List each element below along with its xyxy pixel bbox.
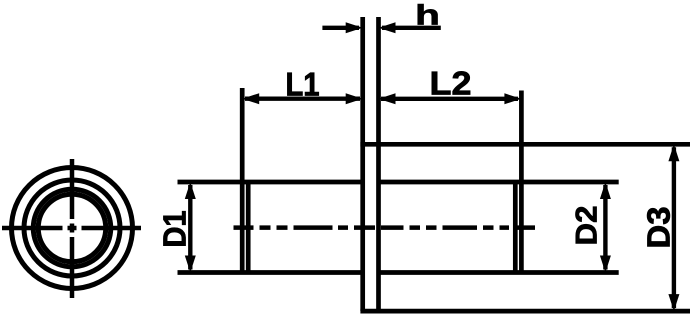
arrowhead D2 bottom bbox=[600, 256, 611, 273]
horizontal centerline (front view) bbox=[2, 226, 141, 231]
bore circle inner chamfer (front view) bbox=[38, 194, 106, 262]
dimension line D3 bbox=[672, 147, 676, 308]
outer circle D3 (front view) bbox=[12, 168, 133, 289]
arrowhead D3 bottom bbox=[668, 294, 679, 311]
arrowhead L2 left bbox=[379, 93, 396, 104]
side view centerline bbox=[234, 225, 536, 230]
arrowhead L1 left bbox=[242, 93, 259, 104]
arrowhead D3 top bbox=[668, 144, 679, 161]
left cylinder bottom line bbox=[178, 270, 363, 275]
dimension line L1 bbox=[245, 96, 360, 100]
bore circle outer (front view) bbox=[33, 189, 111, 267]
left cylinder end face / L1 extension line bbox=[240, 88, 245, 273]
middle circle D2 (front view) bbox=[24, 180, 120, 276]
right cylinder end face / L2 extension line bbox=[519, 91, 524, 273]
label L1 bbox=[287, 73, 318, 96]
label D3 (rotated) bbox=[647, 208, 670, 247]
dimension line h left segment bbox=[322, 26, 359, 30]
left cylinder top line bbox=[178, 180, 363, 185]
dimension line D1 bbox=[188, 185, 192, 270]
flange top edge + D3 extension line bbox=[360, 142, 690, 147]
arrowhead h right (points left at flange right edge) bbox=[379, 22, 396, 33]
label L2 bbox=[432, 71, 470, 94]
flange bottom edge + D3 extension line bbox=[360, 309, 690, 314]
right cylinder top line + D2 extension bbox=[379, 180, 619, 185]
arrowhead L2 right bbox=[504, 93, 521, 104]
arrowhead L1 right bbox=[346, 93, 363, 104]
arrowhead D1 bottom bbox=[185, 256, 196, 273]
left cylinder chamfer line bbox=[246, 182, 251, 273]
right cylinder chamfer line bbox=[513, 182, 518, 273]
right cylinder bottom line + D2 extension bbox=[379, 270, 619, 275]
flange right edge / extension line bbox=[376, 17, 381, 311]
dimension line D2 bbox=[603, 185, 607, 270]
label h bbox=[418, 4, 438, 24]
vertical centerline (front view) bbox=[70, 159, 75, 298]
dimension line L2 bbox=[381, 97, 518, 101]
arrowhead D1 top bbox=[185, 182, 196, 199]
arrowhead h left (points right at flange left edge) bbox=[346, 22, 363, 33]
label D1 (rotated) bbox=[163, 211, 185, 245]
label D2 (rotated) bbox=[576, 207, 597, 244]
dimension line h right segment bbox=[382, 26, 441, 30]
flange left edge / extension line bbox=[360, 17, 365, 311]
arrowhead D2 top bbox=[600, 182, 611, 199]
